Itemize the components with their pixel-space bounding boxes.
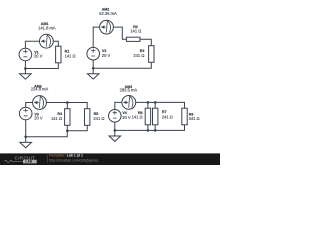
label AM4 — [120, 85, 138, 93]
wire V3 top to AM3 left — [26, 103, 33, 108]
label AM1 — [38, 22, 56, 31]
voltage source V4 — [109, 110, 122, 123]
resistor R5 — [85, 109, 90, 126]
svg-text:20 V: 20 V — [34, 115, 43, 120]
ground GND4 — [109, 130, 121, 141]
wire V1 bottom to rail — [24, 61, 26, 69]
label R7 — [162, 110, 173, 119]
resistor R3 — [149, 46, 154, 63]
wire R6 top stub — [147, 102, 149, 108]
voltage source V1 — [19, 48, 32, 61]
wire R4 top stub — [66, 103, 68, 109]
resistor R8 — [182, 108, 187, 125]
svg-text:20 V: 20 V — [122, 115, 131, 120]
svg-text:224.8 mA: 224.8 mA — [31, 87, 49, 92]
resistor R6 — [145, 108, 150, 125]
wire R6 bottom stub — [147, 125, 149, 131]
svg-text:141 Ω: 141 Ω — [65, 54, 76, 59]
wire V1 top to AM1 left — [25, 41, 39, 48]
wire V2 top to AM2 left — [93, 27, 99, 47]
svg-text:FiveSpike / Lab 1 pt 1: FiveSpike / Lab 1 pt 1 — [49, 154, 83, 158]
label R1 — [65, 50, 76, 59]
wire R4 bottom through link to rail — [26, 125, 68, 137]
label R8 — [189, 112, 200, 121]
node junction top R4 — [66, 101, 69, 104]
svg-text:20 V: 20 V — [34, 54, 43, 59]
ground GND3 — [20, 137, 32, 148]
CircuitLab logo — [4, 156, 36, 164]
ground GND1 — [20, 69, 32, 80]
wire R7 bottom stub — [154, 125, 156, 131]
voltage source V2 — [87, 47, 100, 60]
node junction link R4 — [66, 130, 69, 133]
label R4 — [51, 112, 62, 121]
resistor R1 — [56, 46, 61, 63]
wire R8 bottom to rail — [115, 125, 185, 131]
label R2 — [130, 25, 141, 34]
node junction V3-rail — [24, 136, 27, 139]
op ammeter AM4 — [122, 96, 136, 110]
label R6 — [132, 111, 143, 120]
wire V3 bottom to rail — [25, 120, 27, 137]
wire V4 bottom to rail — [114, 122, 116, 130]
svg-text:R7: R7 — [162, 110, 167, 114]
svg-text:LAB: LAB — [26, 160, 33, 164]
node junction V4-rail — [114, 129, 117, 132]
resistor R7 — [153, 108, 158, 125]
svg-text:241 Ω: 241 Ω — [133, 53, 144, 58]
label V2 — [102, 49, 111, 58]
svg-text:241 Ω: 241 Ω — [162, 115, 173, 120]
svg-text:283.5 mA: 283.5 mA — [120, 88, 138, 93]
node junction R6-rail — [147, 129, 150, 132]
separator — [46, 155, 48, 163]
op ammeter AM3 — [33, 96, 47, 110]
svg-text:141 Ω: 141 Ω — [130, 29, 141, 34]
svg-text:341 Ω: 341 Ω — [189, 116, 200, 121]
label R3 — [133, 49, 144, 58]
wire AM1 right to R1 top — [53, 41, 58, 46]
label AM2 — [99, 8, 117, 17]
label V1 value — [34, 51, 43, 59]
node junction V1-rail — [24, 67, 27, 70]
resistor R2 (horizontal) — [126, 37, 140, 41]
wire R7 top stub — [154, 102, 156, 108]
label V4 — [122, 111, 131, 120]
wire R1 bottom to rail — [25, 63, 58, 69]
ground GND2 — [87, 68, 99, 79]
svg-text:141 Ω: 141 Ω — [51, 116, 62, 121]
wire R2 right to R3 top — [140, 39, 151, 45]
node junction top R7 — [154, 101, 157, 104]
op ammeter AM2 — [100, 20, 114, 34]
wire AM4 right to R8 top — [136, 102, 185, 108]
wire V2 bottom to rail — [92, 60, 94, 68]
wire AM2 right to R2 left — [113, 27, 126, 39]
svg-text:141 Ω: 141 Ω — [132, 115, 143, 120]
resistor R4 — [65, 109, 70, 126]
svg-text:241 Ω: 241 Ω — [93, 116, 104, 121]
wire R5 bottom to link — [67, 125, 87, 131]
svg-text:52.36 mA: 52.36 mA — [99, 11, 117, 16]
node junction V2-rail — [92, 67, 95, 70]
voltage source V3 — [19, 107, 32, 120]
node junction top R6 — [147, 101, 150, 104]
node junction R7-rail — [154, 129, 157, 132]
op ammeter AM1 — [40, 34, 54, 48]
label R5 — [93, 112, 104, 121]
wire R3 bottom to rail — [93, 62, 151, 68]
wire V4 top to AM4 left — [115, 102, 122, 109]
label AM3 — [31, 84, 49, 91]
label V3 — [34, 112, 43, 120]
svg-text:20 V: 20 V — [102, 53, 111, 58]
svg-text:141.8 mA: 141.8 mA — [38, 26, 56, 31]
svg-text:http://circuitlab.com/c66q5gku: http://circuitlab.com/c66q5gkuvq — [49, 158, 98, 162]
wire AM3 right to R5 top — [46, 103, 87, 109]
